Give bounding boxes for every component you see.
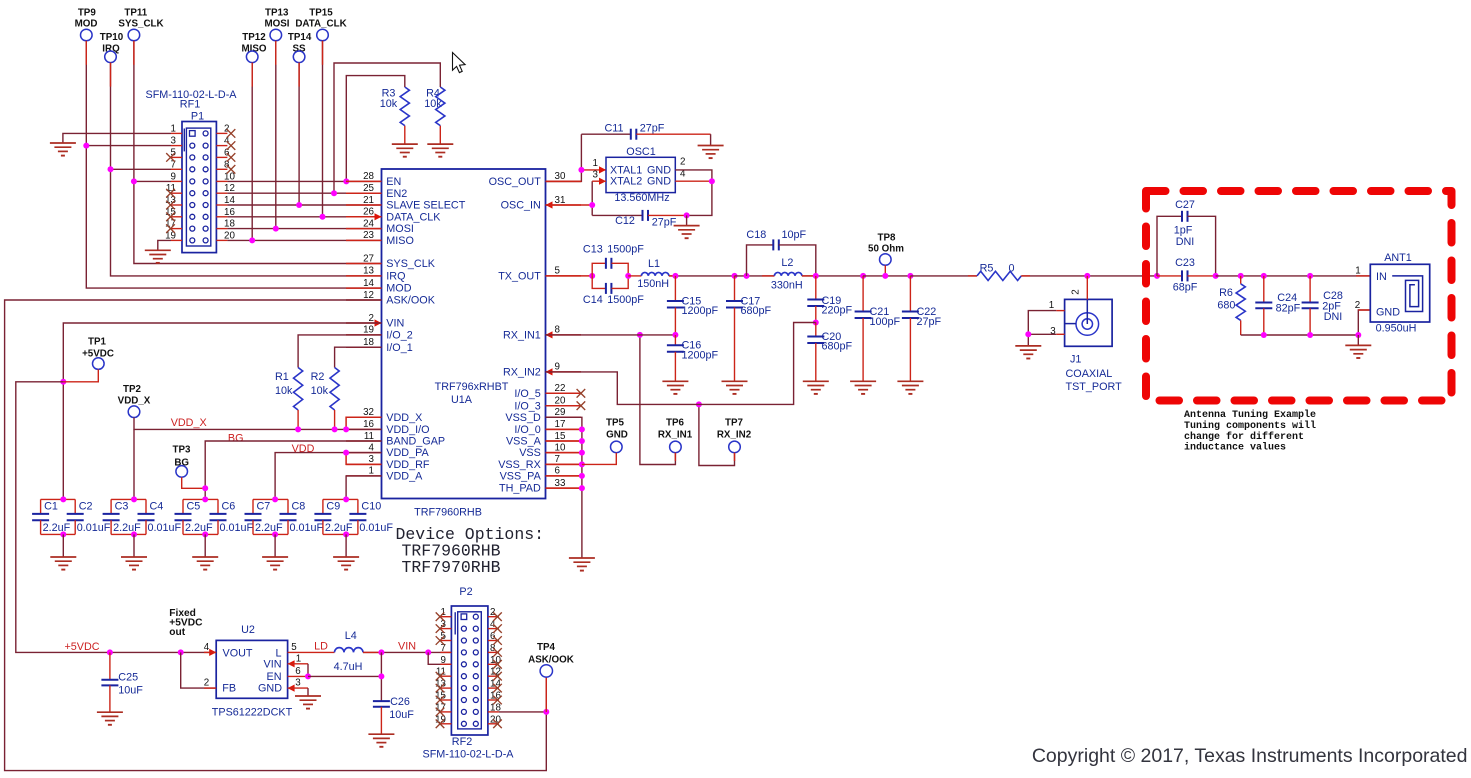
wire TP9/MOD to IC pin 14: [86, 41, 381, 288]
wire TP14/SS to SLAVE SELECT net: [298, 63, 300, 205]
svg-text:9: 9: [555, 362, 560, 373]
svg-text:GND: GND: [647, 164, 671, 176]
svg-text:TP3: TP3: [173, 444, 192, 455]
svg-text:C6: C6: [222, 501, 236, 513]
svg-text:C23: C23: [1175, 257, 1195, 269]
connector P1 pin 14 stub: [216, 204, 227, 206]
svg-text:C2: C2: [79, 501, 93, 513]
connector P1 pin 10 stub: [216, 180, 227, 182]
svg-text:FB: FB: [222, 683, 236, 695]
connector P1 pin 15 stub: [171, 216, 182, 218]
junction C27/C23 left node: [1154, 273, 1160, 279]
svg-text:10k: 10k: [311, 385, 329, 397]
svg-text:1500pF: 1500pF: [607, 243, 644, 255]
svg-text:TPS61222DCKT: TPS61222DCKT: [212, 707, 293, 719]
svg-text:I/O_3: I/O_3: [514, 400, 540, 412]
U1A I/O_3 no-connect: [546, 405, 573, 407]
svg-text:COAXIAL: COAXIAL: [1066, 368, 1113, 380]
svg-text:SLAVE SELECT: SLAVE SELECT: [386, 200, 465, 212]
wire C7/C8 to ground: [272, 531, 278, 537]
junction C21 top: [860, 273, 866, 279]
svg-text:L4: L4: [345, 630, 357, 642]
connector P2 pin 1 stub: [440, 616, 451, 618]
connector J1 COAXIAL TST_PORT: [1065, 299, 1113, 346]
ground at P1 pin1: [50, 142, 76, 144]
svg-text:VDD_A: VDD_A: [386, 471, 423, 483]
mouse cursor: [453, 53, 466, 73]
svg-text:680pF: 680pF: [822, 341, 853, 353]
capacitor C1 2.2uF: [41, 498, 76, 500]
U1A VIN input arrow: [375, 319, 382, 326]
svg-text:VOUT: VOUT: [223, 648, 253, 660]
svg-text:0.01uF: 0.01uF: [290, 522, 324, 534]
connector P2 pin 2 stub: [488, 616, 499, 618]
test point red lead: [133, 41, 135, 65]
svg-text:2: 2: [204, 678, 209, 689]
svg-text:RX_IN1: RX_IN1: [503, 330, 541, 342]
wire C17 node to L2: [735, 275, 775, 277]
capacitor C6 0.01uF: [217, 499, 219, 514]
svg-text:MOSI: MOSI: [386, 223, 414, 235]
junction MISO / TP12: [249, 237, 255, 243]
svg-text:30: 30: [555, 171, 566, 182]
ground at C17: [722, 380, 748, 382]
connector P1 pin 4 stub: [216, 145, 227, 147]
ground at ANT1: [1345, 344, 1371, 346]
svg-text:22: 22: [555, 383, 566, 394]
U1A DATA_CLK input arrow: [375, 213, 382, 220]
svg-text:VDD_X: VDD_X: [118, 395, 151, 406]
svg-text:1500pF: 1500pF: [607, 294, 644, 306]
connector P2 pin 18 stub: [488, 711, 499, 713]
connector P2 pin 12 stub: [488, 675, 499, 677]
junction C22 top: [907, 273, 913, 279]
svg-text:VSS_D: VSS_D: [505, 412, 541, 424]
svg-text:BG: BG: [228, 432, 244, 444]
svg-text:4: 4: [369, 442, 375, 453]
junction TP4 node: [543, 709, 549, 715]
wire VSS bus: [546, 417, 582, 558]
svg-text:TP4: TP4: [537, 642, 556, 653]
svg-text:VIN: VIN: [386, 318, 404, 330]
svg-text:GND: GND: [647, 176, 671, 188]
svg-text:1200pF: 1200pF: [682, 305, 719, 317]
svg-text:7: 7: [555, 454, 560, 465]
svg-text:1: 1: [1049, 300, 1054, 311]
junction C25 feed: [107, 649, 113, 655]
svg-text:0.01uF: 0.01uF: [148, 522, 182, 534]
op-amp-style IC U1A TRF796xRHBT: [382, 169, 546, 499]
test point red lead: [275, 41, 277, 65]
wire P1 pin12 to IC EN2: [227, 192, 381, 194]
wire C23 to ANT1: [1216, 275, 1371, 277]
U2 EN pin stub: [288, 675, 308, 677]
junction VSS bus: [579, 461, 585, 467]
svg-text:31: 31: [555, 195, 566, 206]
ground at C5/C6: [192, 556, 218, 558]
svg-text:6: 6: [295, 666, 301, 677]
svg-text:10k: 10k: [380, 98, 398, 110]
svg-text:VDD_RF: VDD_RF: [386, 459, 430, 471]
svg-text:27pF: 27pF: [640, 122, 665, 134]
connector P2 pin 17 stub: [440, 711, 451, 713]
wire VDD_A to C9/C10: [346, 476, 381, 500]
svg-text:L1: L1: [648, 258, 660, 270]
svg-text:1: 1: [593, 158, 598, 169]
ground at C21: [850, 380, 876, 382]
svg-text:TRF7960RHB: TRF7960RHB: [414, 507, 482, 519]
capacitor C8 0.01uF: [287, 499, 289, 514]
OSC1 pin3 arrow: [599, 178, 606, 185]
svg-text:ASK/OOK: ASK/OOK: [528, 654, 574, 665]
wire VSS pin stub to bus: [546, 428, 582, 430]
connector P1 pin 3 stub: [171, 145, 182, 147]
wire VSS pin stub to bus: [546, 440, 582, 442]
ground at C7/C8: [262, 556, 288, 558]
svg-text:TP9: TP9: [78, 8, 97, 19]
test point red lead: [298, 63, 300, 87]
connector P2 pin 14 stub: [488, 687, 499, 689]
wire BAND_GAP to C5/C6: [205, 441, 381, 499]
wire VSS pin stub to bus: [546, 452, 582, 454]
svg-text:R6: R6: [1219, 287, 1233, 299]
svg-text:680: 680: [1217, 300, 1235, 312]
svg-text:68pF: 68pF: [1173, 281, 1198, 293]
junction R2 / VDD_X: [332, 426, 338, 432]
wire TP8 to line: [884, 265, 886, 276]
svg-text:DATA_CLK: DATA_CLK: [295, 19, 346, 30]
svg-text:MOSI: MOSI: [264, 19, 289, 30]
wire VSS pin stub to bus: [546, 475, 582, 477]
junction C17 top: [732, 273, 738, 279]
svg-text:14: 14: [363, 278, 374, 289]
svg-text:C9: C9: [326, 501, 340, 513]
svg-text:4.7uH: 4.7uH: [334, 661, 363, 673]
connector P2 pin 7 stub: [440, 651, 451, 653]
svg-text:13: 13: [363, 266, 374, 277]
connector P1 pin 12 stub: [216, 192, 227, 194]
svg-text:TP14: TP14: [288, 32, 312, 43]
svg-text:OSC1: OSC1: [626, 146, 655, 158]
svg-text:TRF7970RHB: TRF7970RHB: [402, 558, 501, 577]
svg-text:TP5: TP5: [606, 418, 625, 429]
wire C1/C2 to ground: [60, 531, 66, 537]
test point red lead: [85, 41, 87, 65]
svg-text:SYS_CLK: SYS_CLK: [118, 19, 163, 30]
svg-text:0.01uF: 0.01uF: [220, 522, 254, 534]
svg-text:TST_PORT: TST_PORT: [1066, 381, 1123, 393]
wire VSS pin stub to bus: [546, 463, 582, 465]
ground at U2: [295, 695, 321, 697]
junction TX_OUT left of C13/C14: [589, 273, 595, 279]
svg-text:SFM-110-02-L-D-A: SFM-110-02-L-D-A: [423, 749, 515, 761]
wire RX_IN2 from IC to C19/C20 tap: [546, 323, 816, 405]
svg-text:29: 29: [555, 407, 566, 418]
svg-text:RF2: RF2: [452, 736, 472, 748]
junction SLAVE SELECT / TP14: [296, 202, 302, 208]
connector P1 pin 1 stub: [171, 132, 182, 134]
svg-text:10uF: 10uF: [118, 684, 143, 696]
svg-text:TRF796xRHBT: TRF796xRHBT: [435, 381, 509, 393]
svg-text:R1: R1: [275, 371, 289, 383]
connector P2 pin 16 stub: [488, 699, 499, 701]
svg-text:C13: C13: [583, 243, 603, 255]
U2 VIN pin arrow: [288, 660, 295, 667]
svg-text:2.2uF: 2.2uF: [113, 522, 141, 534]
connector P1 pin 8 stub: [216, 168, 227, 170]
junction C18 left leg: [744, 273, 750, 279]
junction C7/C8 feed: [272, 496, 278, 502]
svg-text:11: 11: [364, 431, 374, 442]
connector P2 pin 13 stub: [440, 687, 451, 689]
svg-text:C26: C26: [390, 696, 410, 708]
wire VIN net from IC: [63, 323, 381, 499]
svg-text:DNI: DNI: [1176, 236, 1195, 248]
wire C3/C4 to ground: [131, 531, 137, 537]
wire EN to C26 node: [308, 675, 381, 677]
wire TP1 to +5VDC rail: [63, 369, 98, 381]
svg-text:I/O_0: I/O_0: [514, 424, 540, 436]
wire OSC1 GND pins to C12: [675, 170, 712, 216]
connector P1 pin 13 stub: [171, 204, 182, 206]
wire L1 to C15 node: [669, 275, 735, 277]
svg-text:6: 6: [555, 466, 561, 477]
svg-text:I/O_5: I/O_5: [514, 388, 540, 400]
wire TX_OUT to C13/C14: [546, 275, 593, 277]
svg-text:1: 1: [1355, 266, 1360, 277]
junction C1/C2 feed: [60, 496, 66, 502]
junction C5/C6 feed: [202, 496, 208, 502]
wire P2 pin9 to VIN: [428, 652, 451, 664]
svg-text:16: 16: [363, 419, 374, 430]
junction RX_IN2 / TP7: [696, 401, 702, 407]
wire C21 to C22: [863, 275, 910, 277]
svg-text:MISO: MISO: [386, 235, 414, 247]
svg-text:GND: GND: [606, 429, 628, 440]
svg-text:TP8: TP8: [878, 233, 897, 244]
wire L4 to VIN node: [363, 651, 451, 653]
svg-text:+5VDC: +5VDC: [64, 641, 99, 653]
svg-text:change for different: change for different: [1184, 431, 1304, 443]
svg-text:5: 5: [555, 266, 561, 277]
svg-text:BAND_GAP: BAND_GAP: [386, 436, 445, 448]
wire C12 to ground: [686, 215, 688, 225]
J1 pin 2 stub: [1086, 276, 1088, 300]
svg-text:1pF: 1pF: [1174, 224, 1193, 236]
wire P1 pin19 to ground: [158, 240, 171, 250]
junction C19 top: [813, 273, 819, 279]
svg-text:C5: C5: [187, 501, 201, 513]
svg-text:VIN: VIN: [264, 659, 282, 671]
U2 FB pin stub: [204, 687, 216, 689]
junction EN / R3: [343, 178, 349, 184]
junction RX_IN1 / TP6: [637, 332, 643, 338]
test point red lead: [110, 63, 112, 87]
svg-text:LD: LD: [314, 641, 328, 653]
svg-text:C12: C12: [615, 215, 635, 227]
U2 GND pin arrow: [288, 685, 295, 692]
svg-text:10: 10: [555, 442, 566, 453]
junction VIN/EN: [305, 673, 311, 679]
junction DATA_CLK / TP15: [320, 214, 326, 220]
wire C9/C10 to ground: [343, 531, 349, 537]
svg-text:ANT1: ANT1: [1384, 252, 1412, 264]
junction C28 bottom: [1307, 332, 1313, 338]
ground at P1 pin19: [145, 249, 171, 251]
wire P1 pin20 to IC MISO: [227, 239, 381, 241]
svg-text:EN: EN: [267, 671, 282, 683]
svg-text:Copyright © 2017, Texas Instru: Copyright © 2017, Texas Instruments Inco…: [1032, 745, 1468, 767]
wire TP10/IRQ to IC pin 13: [111, 63, 382, 276]
wire C26 node: [380, 652, 382, 701]
svg-text:2.2uF: 2.2uF: [255, 522, 283, 534]
test point red lead: [322, 41, 324, 65]
svg-text:C1: C1: [44, 501, 58, 513]
wire TP2 down to C3/C4: [133, 429, 135, 499]
wire L pin to L4: [308, 651, 335, 653]
svg-text:C18: C18: [746, 229, 766, 241]
junction VSS bus: [579, 450, 585, 456]
wire P1 pin10 to IC EN: [227, 180, 381, 182]
ground at C20: [803, 380, 829, 382]
svg-text:C14: C14: [583, 294, 603, 306]
junction C9/C10 feed: [343, 496, 349, 502]
svg-text:10uF: 10uF: [389, 709, 414, 721]
junction RX_IN1 / C16: [672, 332, 678, 338]
svg-text:RX_IN2: RX_IN2: [717, 429, 752, 440]
junction TP1 node: [60, 379, 66, 385]
ground below R4: [427, 143, 453, 145]
junction C24 top: [1261, 273, 1267, 279]
wire RX_IN1 from IC to C15/C16: [546, 334, 676, 336]
svg-text:2.2uF: 2.2uF: [185, 522, 213, 534]
wire to antenna ground: [1357, 335, 1359, 345]
svg-text:19: 19: [363, 325, 374, 336]
svg-text:GND: GND: [258, 683, 282, 695]
svg-text:XTAL2: XTAL2: [610, 176, 642, 188]
connector P2 pin 15 stub: [440, 699, 451, 701]
svg-text:0.01uF: 0.01uF: [77, 522, 111, 534]
svg-text:GND: GND: [1376, 307, 1400, 319]
wire antenna bottom rail: [1241, 310, 1371, 335]
svg-text:U1A: U1A: [451, 394, 473, 406]
svg-text:C10: C10: [361, 501, 381, 513]
capacitor C4 0.01uF: [145, 499, 147, 514]
svg-text:3: 3: [295, 678, 301, 689]
junction P1 pin3 / MOD: [83, 143, 89, 149]
svg-text:2.2uF: 2.2uF: [43, 522, 71, 534]
wire P1 pin9 to TP11/SYS_CLK net: [134, 180, 171, 182]
svg-text:2: 2: [680, 157, 685, 168]
svg-text:27pF: 27pF: [652, 217, 677, 229]
wire OSC_IN to OSC1 pin3 and C12: [546, 204, 593, 206]
wire L2 to C19: [802, 275, 863, 277]
connector P2 pin 9 stub: [440, 663, 451, 665]
capacitor C10 0.01uF: [357, 499, 359, 514]
svg-text:SYS_CLK: SYS_CLK: [386, 258, 435, 270]
svg-text:18: 18: [363, 337, 374, 348]
connector P2 pin 10 stub: [488, 663, 499, 665]
wire R5 to J1 node: [1021, 275, 1157, 277]
svg-text:U2: U2: [241, 624, 255, 636]
junction ANT1 GND node: [1355, 332, 1361, 338]
connector P2 pin 11 stub: [440, 675, 451, 677]
junction VDD_RF / VDD_PA: [343, 450, 349, 456]
junction R6 top: [1238, 273, 1244, 279]
wire TP15/DATA_CLK to DATA_CLK net: [322, 41, 324, 217]
junction EN / C26: [378, 673, 384, 679]
svg-text:TX_OUT: TX_OUT: [498, 271, 541, 283]
ground below R3: [392, 143, 418, 145]
wire P1 pin18 to IC MOSI: [227, 228, 381, 230]
capacitor C5 2.2uF: [183, 498, 218, 500]
svg-text:OSC_OUT: OSC_OUT: [489, 176, 542, 188]
junction C12 / ground: [684, 212, 690, 218]
U2 L pin stub: [288, 651, 308, 653]
ground below VSS bus: [569, 557, 595, 559]
U1A I/O_5 no-connect: [546, 392, 573, 394]
connector P1 pin 5 stub: [171, 156, 182, 158]
junction C28 top: [1307, 273, 1313, 279]
svg-text:R2: R2: [311, 371, 325, 383]
svg-text:23: 23: [363, 230, 374, 241]
svg-text:82pF: 82pF: [1276, 303, 1301, 315]
svg-text:2: 2: [369, 313, 374, 324]
svg-text:TP13: TP13: [265, 8, 289, 19]
svg-text:21: 21: [363, 195, 374, 206]
svg-text:TP7: TP7: [725, 418, 744, 429]
wire TP6 to RX_IN1 net: [640, 335, 676, 465]
svg-text:3: 3: [1050, 326, 1056, 337]
svg-text:50 Ohm: 50 Ohm: [868, 243, 904, 254]
junction OSC1 pin4 node: [709, 178, 715, 184]
OSC1 pin1 arrow: [599, 166, 606, 173]
wire VSS pin stub to bus: [546, 487, 582, 489]
junction pin32 stub / rail: [343, 426, 349, 432]
svg-text:Tuning components will: Tuning components will: [1184, 420, 1316, 432]
test point TP4 ASK/OOK: [545, 677, 547, 712]
test point red lead: [251, 63, 253, 87]
connector P2 pin 19 stub: [440, 723, 451, 725]
svg-text:C27: C27: [1175, 199, 1195, 211]
junction MOSI / TP13: [273, 226, 279, 232]
junction J1 tap: [1084, 273, 1090, 279]
svg-text:ASK/OOK: ASK/OOK: [386, 295, 435, 307]
ground at C3/C4: [121, 556, 147, 558]
svg-text:TP6: TP6: [666, 418, 685, 429]
wire P1 pin14 to IC SLAVE SELECT: [227, 204, 381, 206]
svg-text:150nH: 150nH: [637, 278, 669, 290]
wire TP2 to VDD_X rail: [134, 418, 382, 430]
svg-text:EN2: EN2: [386, 188, 407, 200]
connector P1 pin 17 stub: [171, 228, 182, 230]
wire TP11/SYS_CLK to IC pin 27: [134, 41, 382, 264]
wire P1 pin3 to TP9/MOD net: [86, 145, 171, 147]
capacitor C7 2.2uF: [253, 498, 288, 500]
antenna tuning dashed highlight box: [1146, 191, 1452, 401]
connector P1 pin 7 stub: [171, 168, 182, 170]
ground at C22: [897, 380, 923, 382]
svg-text:27pF: 27pF: [917, 316, 942, 328]
svg-text:IRQ: IRQ: [386, 271, 405, 283]
wire VDD_X pin32 stub: [346, 417, 381, 429]
ground at C11: [698, 145, 724, 147]
svg-text:TP10: TP10: [100, 32, 124, 43]
svg-text:8: 8: [555, 325, 561, 336]
svg-text:DATA_CLK: DATA_CLK: [386, 211, 441, 223]
connector P1 pin 11 stub: [171, 192, 182, 194]
wire OSC_OUT to OSC1 pin1 and C11: [546, 134, 582, 181]
